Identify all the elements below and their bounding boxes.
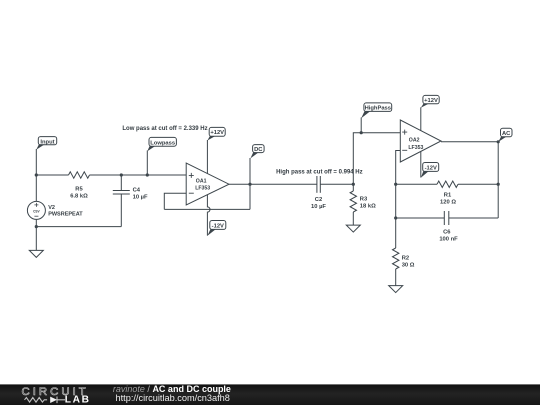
node junction: [35, 173, 38, 176]
svg-text:R2: R2: [402, 256, 409, 262]
node -12V (OA2): [421, 163, 439, 178]
svg-text:CSV: CSV: [33, 209, 40, 213]
node HighPass: [361, 103, 391, 118]
wire: [449, 217, 498, 219]
wire: [36, 226, 121, 228]
wire: [396, 183, 437, 185]
svg-text:-12V: -12V: [425, 165, 437, 171]
op-amp OA1: [186, 163, 229, 205]
wire: [35, 175, 37, 201]
svg-text:AC: AC: [502, 131, 511, 137]
resistor R3: [350, 191, 376, 212]
svg-text:PWSREPEAT: PWSREPEAT: [48, 212, 83, 218]
svg-text:10 µF: 10 µF: [133, 194, 148, 200]
wire: [146, 151, 148, 176]
wire (feedback up): [249, 184, 251, 209]
wire: [90, 174, 187, 176]
wire: [395, 218, 397, 248]
ground: [389, 286, 403, 293]
wire: [36, 174, 68, 176]
node +12V (OA1): [207, 127, 225, 140]
svg-text:30 Ω: 30 Ω: [402, 262, 415, 268]
CircuitLab logo: [22, 386, 91, 405]
wire: [497, 142, 499, 218]
wire: [249, 158, 251, 184]
footer bar: [0, 384, 540, 405]
node junction: [394, 216, 397, 219]
capacitor C6: [439, 211, 458, 242]
resistor R5: [69, 172, 90, 200]
svg-text:LF353: LF353: [195, 186, 210, 192]
node junction: [120, 173, 123, 176]
wire (feedback bottom): [164, 208, 250, 210]
voltage source V2: [27, 201, 83, 219]
node AC: [498, 128, 512, 142]
svg-text:Lowpass: Lowpass: [150, 140, 175, 146]
wire: [352, 212, 354, 225]
svg-text:LF353: LF353: [408, 145, 423, 151]
svg-text:-12V: -12V: [212, 223, 224, 229]
svg-text:LAB: LAB: [65, 395, 91, 405]
node junction: [146, 173, 149, 176]
wire: [396, 217, 445, 219]
node -12V (OA1): [207, 221, 225, 236]
svg-text:+12V: +12V: [424, 98, 438, 104]
wire: [395, 269, 397, 286]
ground: [29, 250, 43, 257]
wire: [35, 227, 37, 251]
wire (OA2 minus input): [396, 151, 401, 219]
node junction: [497, 183, 500, 186]
wire: [320, 183, 353, 185]
node +12V (OA2): [421, 95, 439, 107]
resistor R1: [437, 181, 458, 205]
wire: [458, 183, 498, 185]
wire (-12V stub with hop): [207, 195, 210, 236]
svg-text:R5: R5: [75, 187, 83, 193]
wire (OA1 output): [229, 183, 317, 185]
node junction: [248, 183, 251, 186]
node Lowpass: [147, 137, 176, 151]
svg-text:100 nF: 100 nF: [439, 236, 458, 242]
svg-text:http://circuitlab.com/cn3afh8: http://circuitlab.com/cn3afh8: [116, 393, 230, 403]
wire (OA1 minus input): [164, 193, 186, 209]
wire: [206, 140, 208, 174]
svg-text:OA2: OA2: [409, 138, 420, 144]
resistor R2: [393, 248, 415, 269]
capacitor C4: [113, 175, 148, 227]
node junction: [360, 131, 363, 134]
svg-text:6.8 kΩ: 6.8 kΩ: [70, 193, 88, 199]
op-amp OA2: [400, 120, 441, 162]
wire: [420, 107, 422, 130]
node junction: [394, 183, 397, 186]
node junction: [35, 225, 38, 228]
svg-text:DC: DC: [254, 147, 263, 153]
svg-text:C6: C6: [443, 230, 451, 236]
svg-text:10 µF: 10 µF: [311, 204, 326, 210]
wire (OA2 output): [441, 141, 498, 143]
wire: [360, 118, 362, 133]
svg-text:120 Ω: 120 Ω: [440, 199, 456, 205]
svg-text:C4: C4: [133, 188, 141, 194]
wire (up to OA2 +in): [353, 133, 400, 185]
wire: [35, 219, 37, 226]
wire: [352, 184, 354, 191]
svg-text:18 kΩ: 18 kΩ: [360, 203, 376, 209]
svg-text:High pass at cut off = 0.994 H: High pass at cut off = 0.994 Hz: [276, 170, 363, 176]
node Input: [36, 137, 56, 150]
svg-text:V2: V2: [48, 205, 55, 211]
capacitor C2: [311, 176, 326, 210]
svg-text:R1: R1: [444, 193, 452, 199]
node junction: [352, 183, 355, 186]
node DC: [250, 145, 264, 159]
svg-text:Low pass at cut off = 2.339 Hz: Low pass at cut off = 2.339 Hz: [122, 126, 207, 132]
svg-text:R3: R3: [360, 197, 368, 203]
node junction: [497, 140, 500, 143]
svg-text:C2: C2: [315, 197, 322, 203]
footer text: [113, 384, 231, 403]
wire: [420, 151, 422, 177]
ground: [346, 225, 360, 232]
svg-text:Input: Input: [40, 139, 54, 145]
svg-text:HighPass: HighPass: [365, 106, 391, 112]
svg-text:OA1: OA1: [196, 179, 207, 185]
svg-text:+12V: +12V: [210, 130, 224, 136]
wire: [35, 149, 37, 175]
junction dots: [35, 131, 500, 228]
